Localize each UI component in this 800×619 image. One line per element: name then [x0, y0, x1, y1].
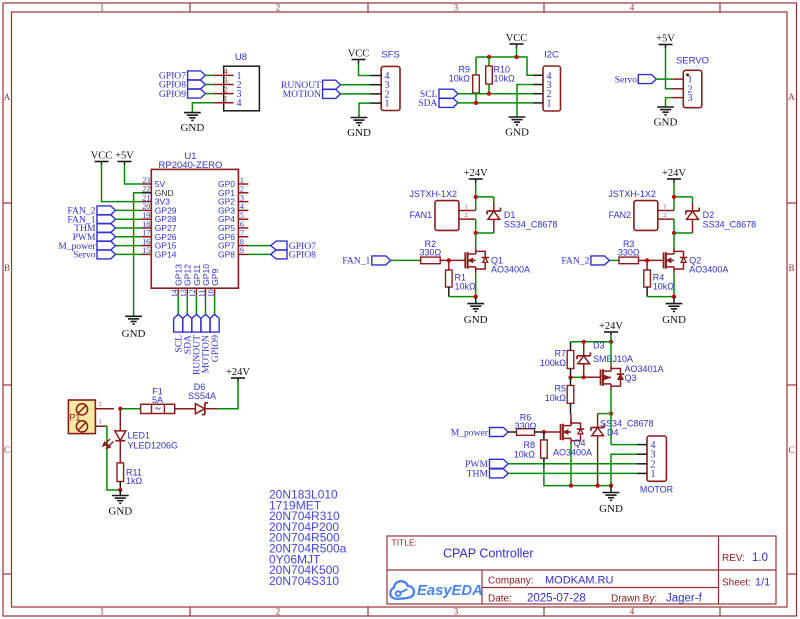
- net flag THM: [74, 223, 115, 234]
- wire: [475, 183, 477, 197]
- svg-text:GP14: GP14: [155, 249, 177, 259]
- connector I2C: [533, 50, 561, 112]
- svg-text:Q4: Q4: [574, 438, 586, 448]
- junction: [474, 295, 478, 299]
- svg-text:VCC: VCC: [506, 33, 528, 44]
- resistor R4: [644, 260, 675, 296]
- junction: [672, 295, 676, 299]
- part number list: [269, 488, 347, 588]
- svg-text:GND: GND: [122, 328, 146, 340]
- junction: [487, 55, 491, 59]
- net flag GPIO7: [271, 241, 317, 252]
- ground: [505, 117, 529, 139]
- wire: [666, 98, 673, 107]
- ground: [662, 297, 686, 327]
- svg-text:P1: P1: [69, 413, 80, 423]
- wire: [673, 183, 675, 197]
- net flag SCL: [173, 314, 184, 352]
- wire: [571, 341, 612, 343]
- wire: [475, 219, 477, 233]
- net flag FAN_2: [67, 206, 115, 217]
- resistor R7: [540, 342, 574, 378]
- wire: [508, 472, 637, 474]
- svg-text:B: B: [788, 263, 794, 273]
- net flag PWM: [465, 459, 508, 470]
- wire: [611, 444, 637, 446]
- svg-text:2: 2: [224, 85, 228, 94]
- junction: [118, 488, 122, 492]
- svg-text:4: 4: [237, 98, 242, 109]
- svg-text:GND: GND: [654, 117, 678, 129]
- svg-text:1: 1: [651, 469, 656, 480]
- svg-text:5: 5: [240, 211, 244, 220]
- wire: [475, 233, 477, 248]
- svg-text:AO3400A: AO3400A: [689, 264, 728, 274]
- diode D1: [487, 197, 557, 233]
- wire: [186, 296, 188, 315]
- svg-text:SFS: SFS: [381, 50, 399, 61]
- svg-text:Company:: Company:: [488, 576, 534, 587]
- svg-text:GP9: GP9: [210, 269, 220, 286]
- junction: [609, 484, 613, 488]
- wire: [116, 253, 142, 255]
- junction: [447, 258, 451, 262]
- net flag M_power: [451, 427, 509, 438]
- svg-text:+5V: +5V: [656, 34, 675, 45]
- svg-text:GPIO9: GPIO9: [159, 89, 186, 100]
- wire: [476, 56, 517, 58]
- svg-text:4: 4: [240, 202, 244, 211]
- wire: [610, 336, 612, 342]
- junction: [474, 195, 478, 199]
- wire: [476, 232, 494, 234]
- junction: [596, 484, 600, 488]
- resistor R6: [508, 413, 544, 436]
- wire: [458, 102, 533, 104]
- svg-text:1/1: 1/1: [755, 577, 770, 589]
- svg-text:4: 4: [224, 67, 228, 76]
- wire: [449, 296, 476, 298]
- svg-text:+24V: +24V: [662, 168, 686, 179]
- wire: [674, 232, 693, 234]
- wire: [544, 468, 611, 486]
- power VCC: [506, 33, 528, 48]
- svg-text:D1: D1: [504, 210, 516, 220]
- svg-text:YLED1206G: YLED1206G: [128, 441, 179, 451]
- svg-text:20: 20: [142, 202, 150, 211]
- wire: [610, 390, 612, 414]
- wire: [102, 165, 142, 202]
- wire: [475, 273, 477, 297]
- EasyEDA logo: [390, 581, 483, 599]
- wire: [656, 78, 672, 80]
- svg-text:JSTXH-1X2: JSTXH-1X2: [608, 189, 656, 199]
- svg-text:1: 1: [385, 99, 390, 110]
- wire: [134, 193, 142, 316]
- wire: [611, 454, 637, 485]
- svg-text:VCC: VCC: [348, 49, 370, 60]
- connector MOTOR: [637, 436, 674, 494]
- svg-text:+24V: +24V: [599, 321, 623, 332]
- svg-text:SERVO: SERVO: [676, 56, 709, 67]
- svg-text:A: A: [788, 92, 795, 102]
- net flag RUNOUT: [281, 80, 340, 91]
- net flag Servo: [615, 74, 657, 85]
- svg-text:MOTOR: MOTOR: [640, 484, 674, 494]
- svg-text:1: 1: [224, 94, 228, 103]
- junction: [609, 340, 613, 344]
- junction: [474, 101, 478, 105]
- power +24V: [662, 168, 686, 183]
- net flag GPIO9: [210, 314, 221, 362]
- svg-text:C: C: [4, 445, 10, 455]
- svg-text:GND: GND: [347, 127, 371, 139]
- svg-text:8: 8: [240, 237, 244, 246]
- junction: [542, 430, 546, 434]
- svg-text:330Ω: 330Ω: [420, 248, 442, 258]
- svg-text:6: 6: [240, 220, 244, 229]
- wire: [120, 408, 140, 410]
- wire: [458, 93, 533, 95]
- wire: [248, 245, 270, 247]
- svg-text:3: 3: [454, 3, 459, 13]
- wire: [516, 48, 518, 58]
- net flag M_power: [58, 241, 115, 252]
- svg-text:10kΩ: 10kΩ: [449, 74, 471, 84]
- diode D6: [175, 382, 218, 415]
- power VCC: [348, 49, 370, 64]
- svg-text:15: 15: [142, 246, 150, 255]
- wire: [647, 296, 674, 298]
- resistor R5: [545, 377, 574, 414]
- junction: [118, 407, 122, 411]
- svg-text:1: 1: [547, 98, 552, 109]
- svg-text:EasyEDA: EasyEDA: [417, 583, 483, 599]
- junction: [582, 375, 586, 379]
- connector SERVO: [673, 56, 709, 108]
- wire: [476, 196, 494, 198]
- svg-text:FAN1: FAN1: [410, 210, 433, 220]
- net flag GPIO8: [271, 250, 317, 261]
- svg-text:U8: U8: [235, 52, 247, 63]
- resistor R1: [446, 260, 477, 296]
- svg-text:+24V: +24V: [464, 168, 488, 179]
- svg-text:2: 2: [464, 212, 467, 219]
- svg-text:2: 2: [663, 212, 666, 219]
- svg-text:SS34_C8678: SS34_C8678: [504, 220, 558, 230]
- junction: [568, 375, 572, 379]
- svg-text:GND: GND: [180, 122, 204, 134]
- svg-text:330Ω: 330Ω: [515, 421, 537, 431]
- net flag FAN_1: [342, 256, 390, 267]
- power VCC: [91, 151, 113, 165]
- svg-text:FAN_2: FAN_2: [561, 256, 589, 267]
- wire: [214, 296, 216, 315]
- svg-text:RP2040-ZERO: RP2040-ZERO: [159, 160, 223, 171]
- wire: [598, 413, 611, 415]
- svg-text:2: 2: [99, 401, 102, 408]
- wire: [517, 85, 533, 118]
- svg-text:JSTXH-1X2: JSTXH-1X2: [410, 189, 458, 199]
- wire: [570, 444, 572, 485]
- svg-text:9: 9: [240, 246, 244, 255]
- svg-text:Jager-f: Jager-f: [666, 593, 703, 605]
- svg-text:100kΩ: 100kΩ: [540, 358, 567, 368]
- wire: [248, 253, 270, 255]
- svg-text:GND: GND: [505, 127, 529, 139]
- svg-text:3: 3: [454, 607, 459, 617]
- svg-text:Sheet:: Sheet:: [722, 578, 751, 589]
- ground: [464, 297, 488, 327]
- svg-text:D2: D2: [703, 210, 715, 220]
- junction: [672, 195, 676, 199]
- svg-text:2: 2: [276, 607, 281, 617]
- svg-text:SMBJ10A: SMBJ10A: [593, 354, 633, 364]
- wire: [666, 48, 673, 89]
- wire: [116, 218, 142, 220]
- svg-text:Date:: Date:: [488, 594, 512, 605]
- wire: [195, 296, 197, 315]
- svg-text:AO3400A: AO3400A: [553, 447, 592, 457]
- diode D2: [686, 197, 756, 233]
- net flag GPIO9: [159, 89, 206, 100]
- svg-text:FAN_1: FAN_1: [342, 256, 370, 267]
- svg-text:10kΩ: 10kΩ: [514, 449, 536, 459]
- wire: [571, 376, 584, 378]
- wire: [116, 227, 142, 229]
- svg-text:20N704S310: 20N704S310: [269, 574, 339, 588]
- wire: [674, 196, 693, 198]
- net flag SDA: [183, 314, 194, 354]
- svg-text:Servo: Servo: [615, 74, 638, 85]
- svg-text:7: 7: [240, 229, 244, 238]
- net flag RUNOUT: [192, 314, 203, 375]
- svg-text:3: 3: [240, 193, 244, 202]
- diode LED1: [103, 409, 178, 463]
- wire: [116, 245, 142, 247]
- svg-text:GPIO9: GPIO9: [210, 335, 221, 362]
- svg-text:GND: GND: [599, 503, 623, 515]
- wire: [610, 342, 612, 365]
- svg-text:10kΩ: 10kΩ: [494, 74, 516, 84]
- svg-text:SS54A: SS54A: [188, 391, 216, 401]
- svg-text:4: 4: [630, 3, 635, 13]
- svg-text:2: 2: [276, 3, 281, 13]
- svg-text:VCC: VCC: [91, 151, 113, 162]
- net flag FAN_1: [67, 214, 115, 225]
- svg-text:TITLE:: TITLE:: [392, 538, 418, 548]
- net flag SCL: [420, 89, 458, 100]
- wire: [584, 376, 601, 378]
- resistor R11: [117, 463, 143, 490]
- diode D3: [577, 341, 633, 378]
- resistor R3: [618, 239, 647, 264]
- connector P1: [68, 400, 114, 434]
- wire: [341, 84, 371, 86]
- title block: [387, 536, 776, 605]
- transistor Q3: [601, 364, 664, 390]
- svg-text:10kΩ: 10kΩ: [455, 281, 477, 291]
- svg-text:AO3400A: AO3400A: [491, 264, 530, 274]
- junction: [474, 231, 478, 235]
- svg-text:2: 2: [240, 185, 244, 194]
- transistor Q4: [544, 420, 592, 458]
- wire: [359, 64, 371, 76]
- svg-text:B: B: [4, 263, 10, 273]
- wire: [218, 382, 238, 409]
- svg-text:MOTION: MOTION: [283, 89, 321, 100]
- svg-text:D3: D3: [593, 341, 605, 351]
- wire: [125, 165, 142, 185]
- resistor R8: [514, 432, 547, 468]
- junction: [672, 231, 676, 235]
- wire: [570, 414, 572, 426]
- svg-text:SS34_C8678: SS34_C8678: [703, 220, 757, 230]
- transistor Q2: [647, 248, 728, 274]
- svg-text:330Ω: 330Ω: [618, 248, 640, 258]
- svg-text:~: ~: [155, 404, 161, 415]
- connector FAN1: [410, 189, 476, 230]
- svg-text:3: 3: [224, 76, 228, 85]
- junction: [582, 340, 586, 344]
- junction: [609, 412, 613, 416]
- net flag Servo: [73, 250, 115, 261]
- svg-text:LED1: LED1: [128, 430, 151, 440]
- svg-text:GND: GND: [464, 314, 488, 326]
- svg-text:3: 3: [688, 93, 693, 104]
- wire: [106, 426, 121, 490]
- svg-text:1.0: 1.0: [752, 552, 768, 564]
- svg-text:1: 1: [100, 607, 105, 617]
- svg-text:A: A: [4, 92, 11, 102]
- svg-text:FAN2: FAN2: [609, 210, 632, 220]
- svg-text:10kΩ: 10kΩ: [545, 393, 567, 403]
- svg-text:MODKAM.RU: MODKAM.RU: [545, 575, 614, 587]
- svg-text:22: 22: [142, 185, 150, 194]
- svg-text:19: 19: [142, 211, 150, 220]
- net flag MOTION: [283, 89, 341, 100]
- svg-text:1: 1: [464, 204, 467, 211]
- wire: [359, 103, 371, 117]
- transistor Q1: [449, 248, 530, 274]
- svg-text:CPAP Controller: CPAP Controller: [443, 547, 534, 561]
- ground: [108, 490, 132, 518]
- wire: [673, 219, 675, 233]
- svg-text:1: 1: [99, 418, 102, 425]
- svg-text:M_power: M_power: [451, 427, 489, 438]
- IC U1 RP2040-ZERO: [141, 151, 248, 297]
- frame row labels: [4, 92, 796, 455]
- svg-text:23: 23: [142, 176, 150, 185]
- junction: [487, 92, 491, 96]
- net flag SDA: [418, 98, 458, 109]
- connector FAN2: [608, 189, 674, 230]
- svg-text:+5V: +5V: [115, 151, 134, 162]
- junction: [514, 55, 518, 59]
- svg-text:1: 1: [240, 176, 244, 185]
- frame column labels: [100, 3, 635, 617]
- svg-text:21: 21: [142, 193, 150, 202]
- power +24V: [226, 367, 250, 382]
- wire: [508, 463, 637, 465]
- wire: [116, 209, 142, 211]
- power +24V: [464, 168, 488, 183]
- svg-text:4: 4: [630, 607, 635, 617]
- wire: [205, 93, 213, 95]
- net flag FAN_2: [561, 256, 609, 267]
- wire: [673, 233, 675, 248]
- wire: [205, 296, 207, 315]
- net flag PWM: [73, 232, 116, 243]
- svg-text:17: 17: [142, 229, 150, 238]
- net flag GPIO7: [159, 71, 206, 82]
- svg-text:D4: D4: [607, 427, 619, 437]
- wire: [116, 236, 142, 238]
- wire: [341, 93, 371, 95]
- wire: [177, 296, 179, 315]
- svg-text:1kΩ: 1kΩ: [126, 476, 143, 486]
- net flag THM: [467, 469, 509, 480]
- resistor R10: [486, 57, 515, 94]
- resistor R2: [420, 239, 449, 264]
- svg-text:1: 1: [100, 3, 105, 13]
- wire: [673, 273, 675, 297]
- wire: [609, 259, 619, 261]
- diode D4: [591, 414, 654, 486]
- ground: [654, 107, 678, 129]
- ground: [599, 486, 623, 515]
- wire: [517, 57, 533, 75]
- wire: [205, 84, 213, 86]
- wire: [205, 74, 213, 76]
- svg-text:GP8: GP8: [218, 249, 235, 259]
- wire: [610, 414, 612, 445]
- svg-text:GPIO8: GPIO8: [289, 250, 316, 261]
- connector SFS: [371, 50, 401, 111]
- svg-text:16: 16: [142, 237, 150, 246]
- svg-text:C: C: [788, 445, 794, 455]
- junction: [569, 484, 573, 488]
- wire: [673, 197, 675, 211]
- svg-text:SDA: SDA: [418, 98, 437, 109]
- wire: [475, 197, 477, 211]
- ground: [180, 113, 204, 135]
- svg-text:18: 18: [142, 220, 150, 229]
- svg-text:Drawn By:: Drawn By:: [611, 594, 657, 605]
- fuse F1: [141, 387, 175, 416]
- power +5V: [115, 151, 134, 165]
- svg-text:1: 1: [663, 204, 666, 211]
- power +5V: [656, 34, 675, 49]
- ground: [122, 316, 146, 340]
- svg-text:Q3: Q3: [625, 373, 637, 383]
- svg-text:5A: 5A: [152, 395, 163, 405]
- svg-text:2025-07-28: 2025-07-28: [527, 593, 586, 605]
- svg-text:10kΩ: 10kΩ: [653, 281, 675, 291]
- net flag MOTION: [201, 314, 212, 373]
- svg-text:THM: THM: [467, 469, 489, 480]
- resistor R9: [449, 57, 480, 103]
- net flag GPIO8: [159, 80, 206, 91]
- svg-text:REV:: REV:: [722, 553, 745, 564]
- power +24V: [599, 321, 623, 336]
- ground: [347, 118, 371, 140]
- IC U8: [214, 52, 260, 111]
- junction: [645, 258, 649, 262]
- svg-text:Servo: Servo: [73, 250, 96, 261]
- wire: [192, 103, 213, 113]
- svg-text:GND: GND: [108, 506, 132, 518]
